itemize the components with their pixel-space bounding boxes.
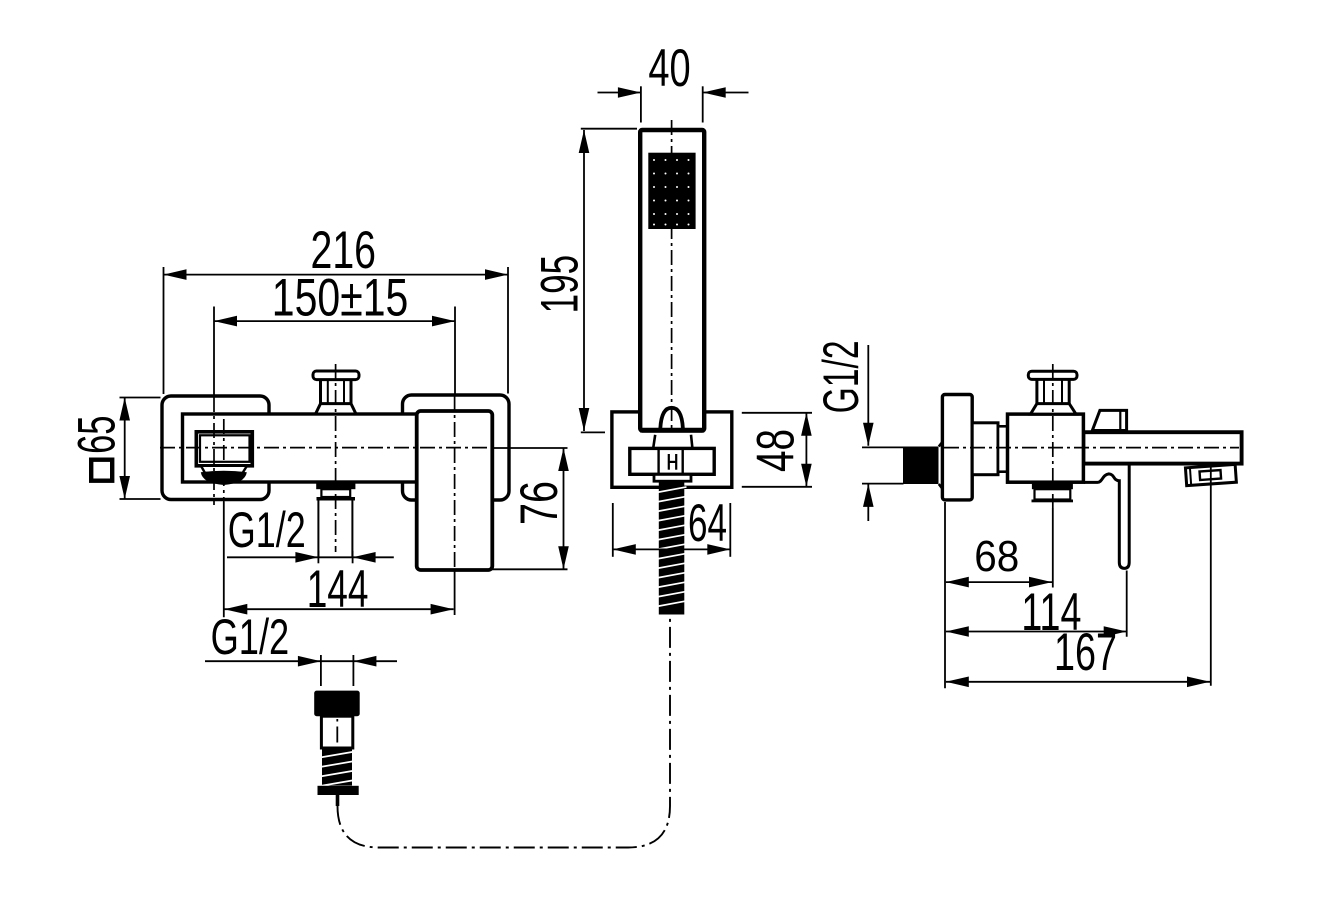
centerline handle front (454, 396, 456, 570)
outlet collar (side) (1032, 482, 1073, 489)
lever handle (front) (417, 411, 493, 570)
fitting cap (314, 691, 360, 717)
shower holder bracket (612, 412, 732, 487)
centerline knob/outlet front (335, 364, 337, 552)
dim 40 (598, 92, 641, 94)
centerline side vertical (1052, 364, 1054, 508)
hose cone (653, 435, 655, 448)
extension line plate side (944, 502, 946, 688)
dim 76 (563, 448, 565, 569)
diverter knob neck (front) (319, 379, 322, 404)
shower outlet band (front) (321, 489, 350, 497)
thread flare (939, 441, 943, 446)
svg-text:G1/2: G1/2 (228, 502, 306, 558)
diverter knob flare (front) (316, 404, 357, 414)
extension line aerator (1210, 466, 1212, 686)
shower outlet lip (front) (317, 497, 356, 501)
wall plate left (162, 396, 269, 500)
svg-text:40: 40 (648, 39, 690, 98)
shower outlet pipe (front) (317, 501, 319, 558)
dim 150±15 (214, 320, 455, 322)
escutcheon (972, 423, 998, 475)
lever arm top (side) (1092, 410, 1126, 430)
dim 195 (583, 130, 585, 431)
knob neck (side) (1035, 379, 1038, 404)
cartridge body (side) (1008, 414, 1084, 482)
spout aerator cone (201, 466, 247, 473)
wall plate (side) (942, 395, 972, 500)
wall thread G1/2 (903, 447, 939, 485)
svg-text:76: 76 (510, 481, 569, 525)
svg-text:167: 167 (1054, 623, 1117, 682)
spout outer face (196, 432, 252, 466)
shower outlet collar (front) (316, 483, 355, 490)
outlet band (side) (1035, 489, 1071, 499)
fitting stub (336, 795, 340, 806)
svg-text:68: 68 (974, 532, 1019, 581)
dim 68 (946, 581, 1052, 583)
head bottom edge redrawn (640, 428, 704, 433)
knob cap (side) (1028, 371, 1077, 379)
svg-text:G1/2: G1/2 (211, 609, 290, 665)
dim G1/2 shower outlet (227, 556, 394, 558)
centerline spout front (223, 419, 225, 502)
extension line handle bar (1126, 571, 1128, 637)
dim 48 (805, 413, 807, 487)
centerline front horizontal (160, 447, 490, 449)
spout aerator (side) (1185, 464, 1236, 485)
holder clamp bar (630, 448, 714, 474)
svg-text:64: 64 (688, 494, 727, 553)
diverter knob cap (front) (313, 371, 359, 380)
knob flare (side) (1031, 404, 1077, 415)
hose routing curve (338, 615, 671, 848)
dim 64 (613, 548, 731, 550)
extension line cartridge center (1052, 508, 1054, 588)
fitting body (321, 716, 352, 748)
dim 114 (946, 631, 1127, 633)
fitting centerline (336, 719, 338, 766)
svg-text:150±15: 150±15 (272, 268, 409, 327)
connection nut (998, 426, 1008, 471)
centerline plate hole (213, 397, 215, 505)
spout pipe (side) (1083, 432, 1241, 463)
dim 167 (946, 681, 1210, 683)
extension line spout center (223, 502, 225, 617)
svg-text:144: 144 (307, 560, 369, 619)
centerline side horizontal (944, 447, 1239, 449)
svg-text:195: 195 (530, 255, 589, 314)
dim 144 (224, 608, 453, 610)
holder hook dome (660, 408, 683, 429)
fitting coil (322, 748, 352, 786)
lever handle bar (side) (1084, 462, 1129, 568)
hand shower body (640, 130, 704, 431)
svg-text:G1/2: G1/2 (813, 340, 869, 413)
spout aerator shadow (201, 471, 247, 485)
shower hose upper coil (659, 481, 685, 615)
mixer body bar (183, 414, 473, 482)
dim G1/2 hose fitting (205, 660, 397, 662)
wall plate right (403, 395, 510, 500)
outlet lip (side) (1032, 500, 1074, 503)
centerline hand shower (671, 120, 673, 428)
dim square65 (124, 398, 126, 500)
fitting flange (318, 786, 359, 795)
dim 216 (164, 274, 509, 276)
spout inner face (200, 435, 250, 462)
svg-text:48: 48 (746, 429, 805, 472)
extension line handle center (454, 570, 456, 615)
clamp detail (668, 454, 670, 470)
spray face (648, 153, 695, 229)
dim G1/2 wall thread (867, 345, 869, 446)
hose nut flange (654, 474, 691, 481)
svg-text:65: 65 (67, 416, 126, 454)
